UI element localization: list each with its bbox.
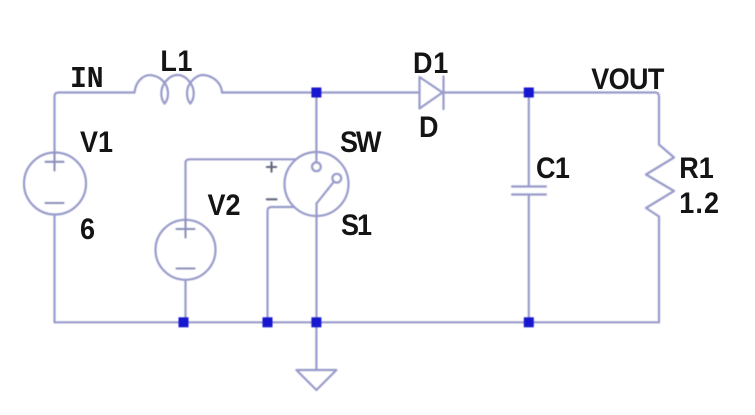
voltage source V2 [156, 220, 216, 280]
inductor L1 label [160, 47, 193, 77]
diode D1 label [413, 49, 449, 79]
V2 plus mark [177, 221, 195, 238]
ground symbol [296, 322, 336, 390]
switch plus mark [267, 162, 276, 171]
switch armature [317, 182, 335, 204]
capacitor C1 upper lead [528, 93, 530, 187]
node VOUT label [591, 65, 664, 95]
switch S1 body [285, 152, 349, 216]
wire V2 top to switch plus [186, 159, 296, 220]
wire bottom rail [55, 321, 660, 323]
resistor value 1.2 label [679, 189, 720, 219]
node junction bottom SW [311, 317, 321, 327]
resistor R1 [646, 145, 674, 323]
V1 label [80, 128, 113, 158]
wire switch bottom lead [315, 204, 317, 323]
diode D1 [420, 77, 443, 109]
V2 minus mark [177, 267, 195, 269]
switch moving contact [332, 174, 341, 183]
node junction bottom V2 [179, 317, 189, 327]
node junction bottom S1 minus [263, 317, 273, 327]
node junction top SW [311, 88, 321, 98]
voltage source V1 [24, 153, 86, 215]
node junction top C1 [524, 88, 534, 98]
capacitor C1 plates [512, 187, 546, 195]
wire L1 to diode [222, 91, 420, 93]
switch minus mark [267, 198, 277, 200]
wire V2 bottom to rail [184, 280, 186, 323]
resistor R1 label [679, 154, 714, 184]
capacitor C1 label [536, 154, 569, 184]
node junction bottom C1 [524, 317, 534, 327]
switch S1 label [341, 211, 370, 241]
inductor L1 [135, 75, 223, 104]
node IN label [70, 65, 104, 95]
switch SW label [340, 128, 380, 158]
V2 label [208, 191, 241, 221]
wire diode to VOUT corner [444, 93, 660, 145]
diode D value label [419, 113, 439, 143]
V1 plus mark [46, 154, 64, 171]
wire switch minus control [268, 207, 295, 322]
wire switch top lead [315, 93, 317, 163]
switch top contact [312, 162, 321, 171]
capacitor C1 lower lead [528, 195, 530, 323]
V1 minus mark [46, 202, 64, 204]
wire V1 bottom to rail [53, 215, 55, 323]
V1 value 6 label [80, 215, 95, 245]
wire top-left IN segment [55, 93, 135, 153]
